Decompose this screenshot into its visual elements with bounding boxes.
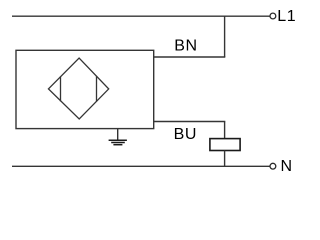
load resistor: [210, 139, 240, 151]
sensor symbol left chord: [60, 76, 62, 101]
svg-text:BN: BN: [174, 38, 197, 55]
ground bar 3: [113, 144, 122, 146]
svg-text:L1: L1: [277, 8, 296, 25]
wire N rail: [12, 165, 270, 167]
sensor symbol right chord: [96, 76, 98, 102]
terminal L1: [270, 13, 276, 19]
ground stem: [117, 129, 119, 141]
proximity sensor symbol diamond: [48, 58, 108, 119]
wire BU horizontal: [154, 121, 226, 123]
svg-text:BU: BU: [174, 126, 197, 143]
ground bar 2: [111, 142, 125, 144]
wire BN horizontal: [154, 56, 226, 58]
wire BU vertical upper: [224, 122, 226, 139]
sensor enclosure box: [16, 50, 154, 128]
ground bar 1: [109, 139, 127, 141]
wire BU vertical lower: [224, 151, 226, 167]
terminal N: [270, 163, 276, 169]
wire BN vertical: [224, 16, 226, 57]
wire L1 rail: [12, 15, 270, 17]
svg-text:N: N: [281, 158, 293, 175]
